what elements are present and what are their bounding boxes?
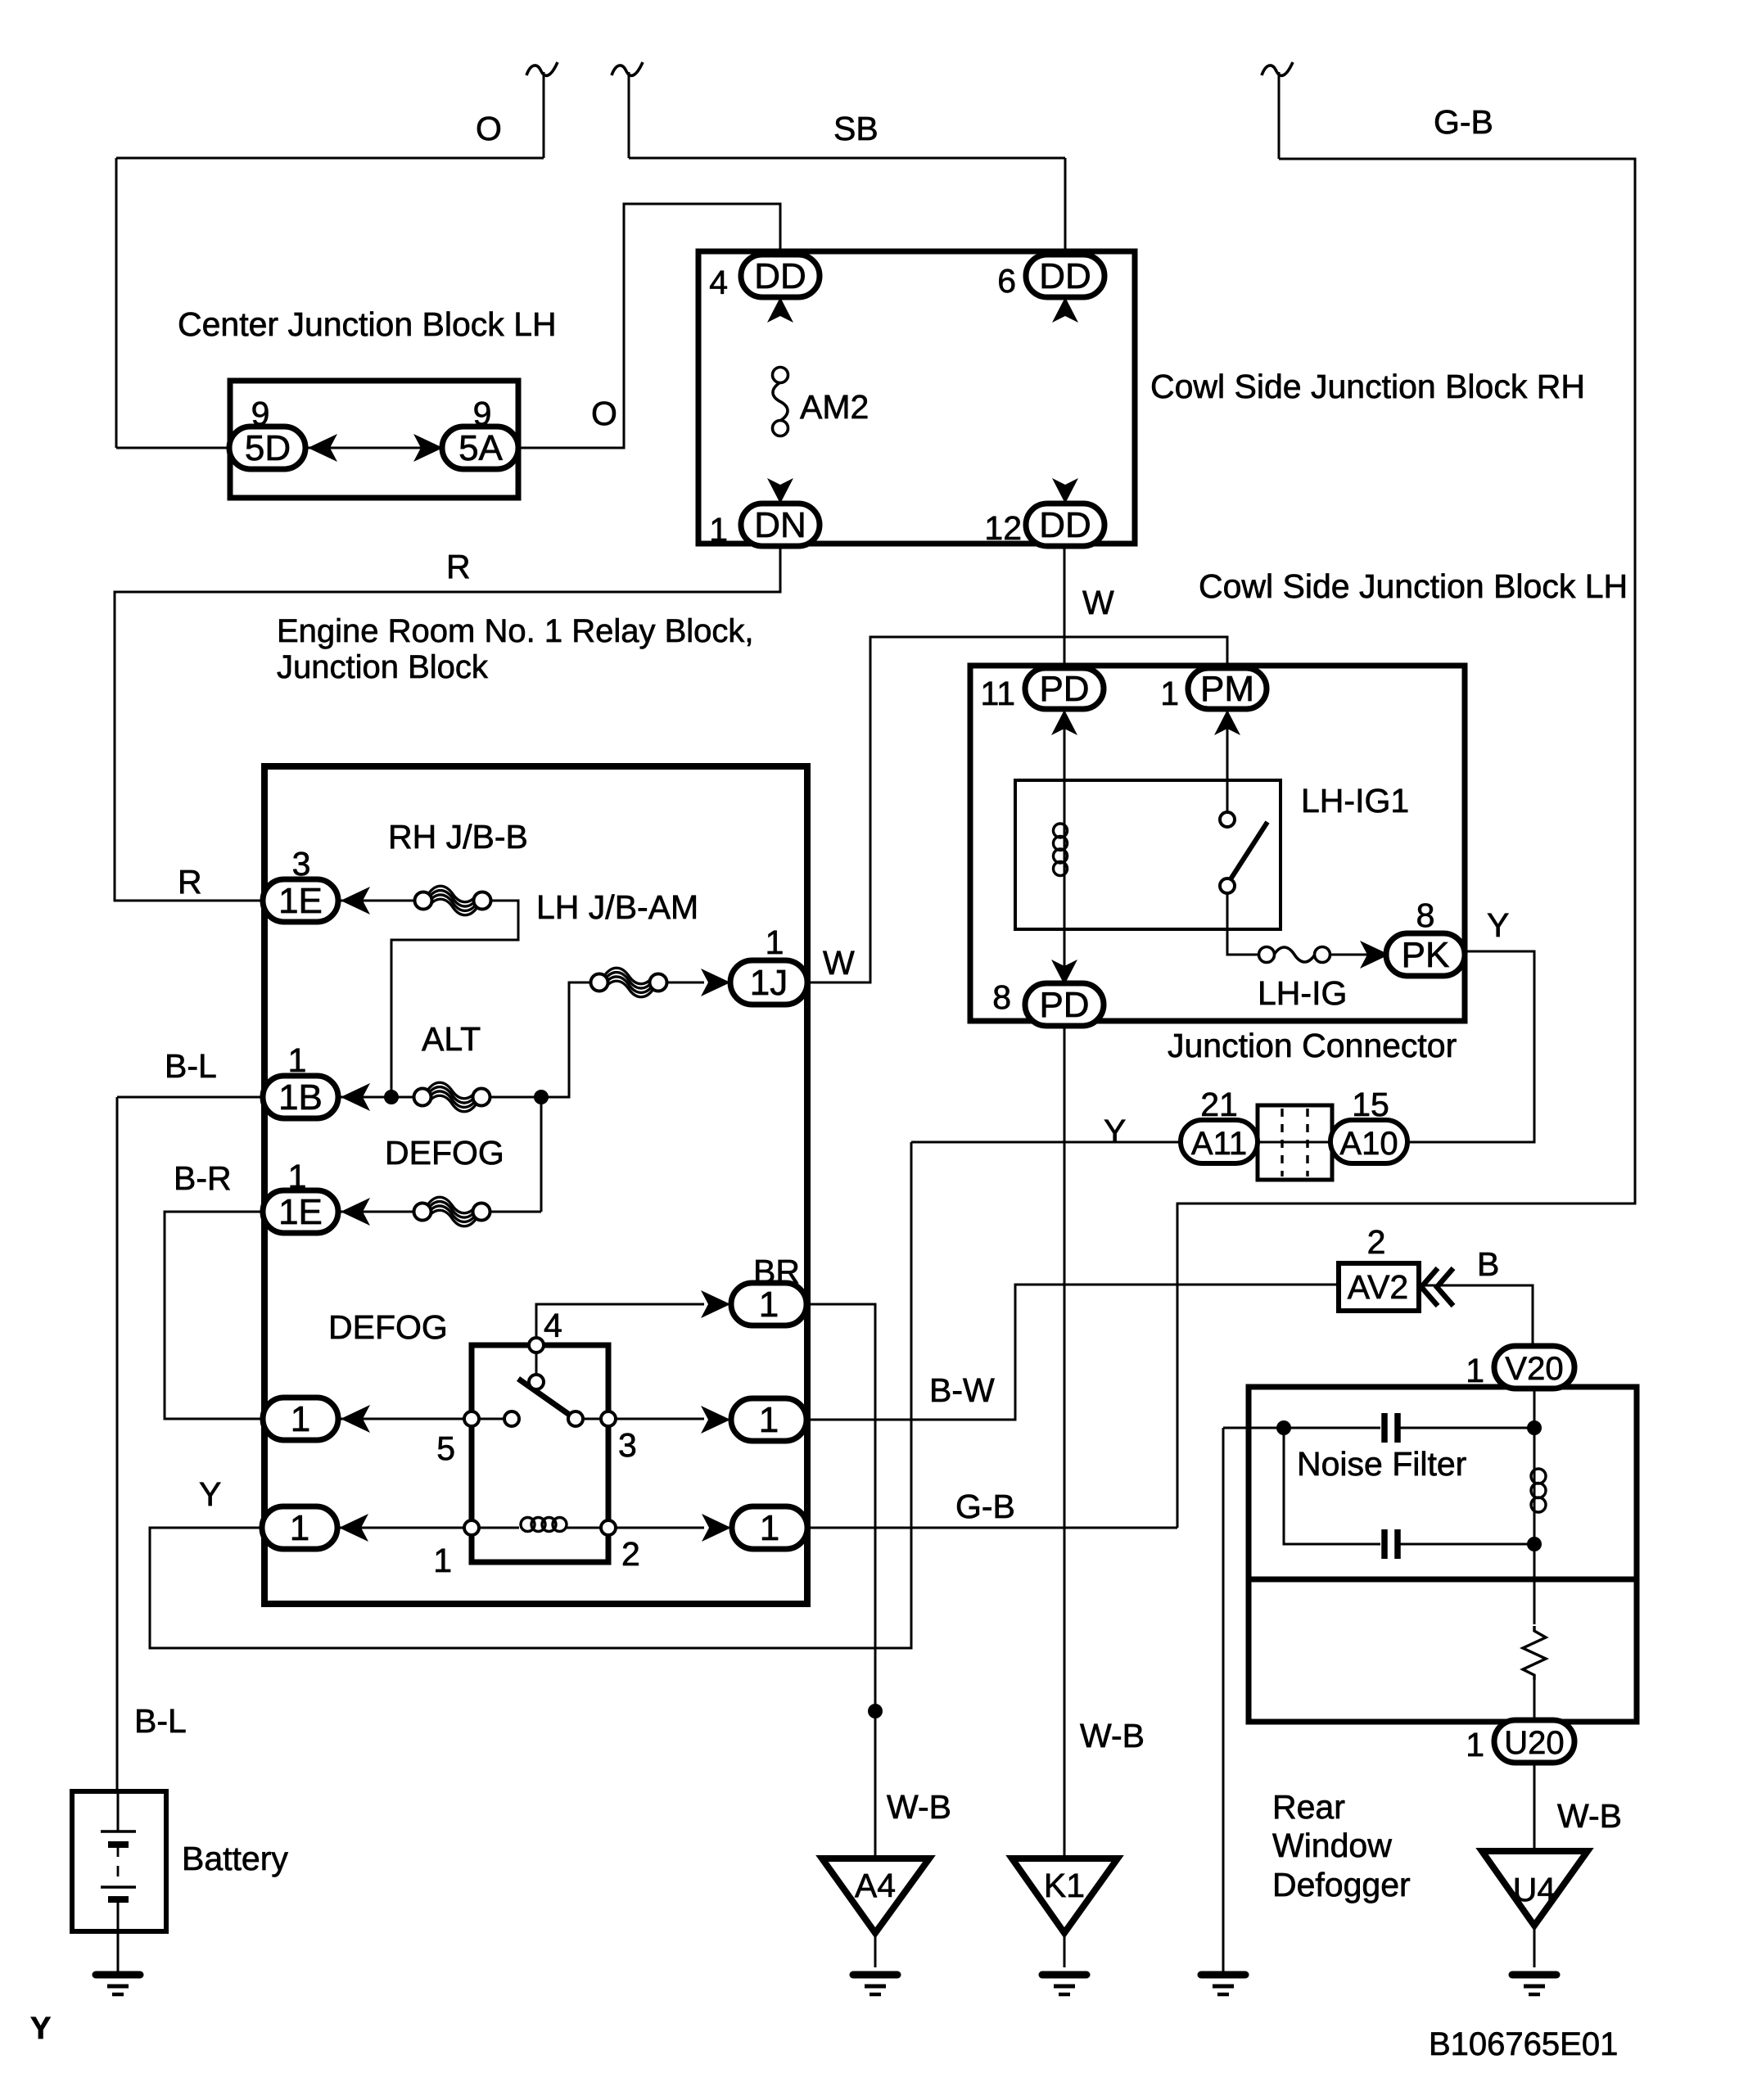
svg-text:1: 1 xyxy=(759,1285,779,1325)
svg-text:1: 1 xyxy=(766,924,784,961)
svg-text:1: 1 xyxy=(1466,1352,1484,1389)
svg-text:1: 1 xyxy=(1160,675,1179,712)
svg-text:W-B: W-B xyxy=(1557,1797,1622,1835)
svg-text:Cowl Side Junction Block RH: Cowl Side Junction Block RH xyxy=(1150,368,1585,405)
svg-text:LH-IG1: LH-IG1 xyxy=(1301,782,1409,820)
svg-text:DEFOG: DEFOG xyxy=(385,1134,504,1172)
svg-text:AV2: AV2 xyxy=(1348,1268,1408,1306)
svg-text:B106765E01: B106765E01 xyxy=(1429,2026,1618,2062)
svg-text:Junction Block: Junction Block xyxy=(277,649,489,685)
svg-text:Defogger: Defogger xyxy=(1272,1866,1411,1904)
svg-text:U20: U20 xyxy=(1504,1725,1564,1761)
svg-text:1E: 1E xyxy=(278,1192,323,1232)
svg-text:1: 1 xyxy=(759,1400,779,1440)
svg-text:Engine Room No. 1 Relay Block,: Engine Room No. 1 Relay Block, xyxy=(277,613,754,649)
svg-text:1E: 1E xyxy=(278,881,323,921)
svg-text:B-L: B-L xyxy=(134,1702,187,1740)
svg-text:Y: Y xyxy=(199,1475,221,1513)
svg-text:R: R xyxy=(178,863,202,901)
svg-text:12: 12 xyxy=(984,509,1022,547)
svg-text:DN: DN xyxy=(754,505,806,545)
svg-text:W-B: W-B xyxy=(1080,1717,1145,1755)
svg-text:Y: Y xyxy=(30,2012,51,2046)
svg-text:LH-IG: LH-IG xyxy=(1258,974,1347,1012)
svg-text:G-B: G-B xyxy=(955,1488,1015,1525)
svg-text:5D: 5D xyxy=(245,428,291,468)
svg-text:W: W xyxy=(823,944,855,982)
svg-text:11: 11 xyxy=(980,675,1015,712)
svg-text:DD: DD xyxy=(1039,256,1091,296)
svg-text:ALT: ALT xyxy=(422,1020,481,1058)
svg-text:PD: PD xyxy=(1039,669,1089,709)
svg-text:RH J/B-B: RH J/B-B xyxy=(388,818,528,856)
svg-text:1: 1 xyxy=(709,511,728,549)
svg-text:1: 1 xyxy=(1466,1726,1484,1764)
svg-text:W-B: W-B xyxy=(887,1788,951,1826)
svg-text:A11: A11 xyxy=(1191,1126,1247,1162)
svg-text:Battery: Battery xyxy=(182,1840,288,1877)
svg-text:O: O xyxy=(476,110,502,147)
svg-text:5: 5 xyxy=(436,1429,455,1467)
svg-text:DEFOG: DEFOG xyxy=(328,1308,448,1346)
svg-text:SB: SB xyxy=(833,110,879,147)
svg-text:B-L: B-L xyxy=(165,1047,217,1085)
svg-text:15: 15 xyxy=(1352,1086,1389,1123)
svg-text:1: 1 xyxy=(290,1508,309,1548)
svg-text:Y: Y xyxy=(1487,906,1509,944)
svg-text:1: 1 xyxy=(291,1399,310,1439)
svg-text:8: 8 xyxy=(1416,896,1435,934)
svg-text:1B: 1B xyxy=(278,1077,323,1118)
svg-text:Cowl Side Junction Block LH: Cowl Side Junction Block LH xyxy=(1199,567,1628,605)
svg-text:8: 8 xyxy=(992,978,1011,1016)
svg-text:W: W xyxy=(1082,584,1114,621)
svg-text:2: 2 xyxy=(621,1535,640,1573)
svg-text:1J: 1J xyxy=(750,963,788,1003)
svg-text:PD: PD xyxy=(1039,985,1089,1025)
svg-text:1: 1 xyxy=(433,1542,452,1579)
svg-text:3: 3 xyxy=(618,1426,637,1464)
svg-text:2: 2 xyxy=(1367,1223,1386,1261)
svg-text:BR: BR xyxy=(753,1253,800,1290)
svg-text:DD: DD xyxy=(1039,505,1091,545)
svg-text:LH J/B-AM: LH J/B-AM xyxy=(536,888,698,926)
svg-text:A10: A10 xyxy=(1339,1126,1398,1162)
svg-text:9: 9 xyxy=(473,395,492,432)
svg-text:R: R xyxy=(446,548,471,585)
svg-text:B-W: B-W xyxy=(929,1371,995,1409)
svg-text:Window: Window xyxy=(1272,1827,1392,1864)
svg-text:Center Junction Block LH: Center Junction Block LH xyxy=(178,305,557,343)
svg-text:6: 6 xyxy=(997,262,1016,300)
svg-text:G-B: G-B xyxy=(1434,103,1493,141)
svg-text:1: 1 xyxy=(288,1158,307,1195)
svg-text:Noise Filter: Noise Filter xyxy=(1297,1445,1466,1483)
svg-text:9: 9 xyxy=(251,395,270,432)
svg-text:Y: Y xyxy=(1104,1113,1126,1150)
svg-text:O: O xyxy=(591,395,617,432)
svg-text:B: B xyxy=(1477,1245,1499,1283)
svg-text:Junction Connector: Junction Connector xyxy=(1168,1027,1457,1064)
svg-text:Rear: Rear xyxy=(1272,1788,1345,1826)
svg-text:U4: U4 xyxy=(1513,1871,1556,1908)
svg-text:PM: PM xyxy=(1200,669,1254,709)
svg-text:3: 3 xyxy=(292,845,311,883)
svg-text:K1: K1 xyxy=(1044,1867,1085,1904)
svg-text:1: 1 xyxy=(288,1041,307,1079)
svg-text:AM2: AM2 xyxy=(800,388,869,426)
svg-text:B-R: B-R xyxy=(174,1159,232,1197)
svg-text:A4: A4 xyxy=(855,1867,896,1904)
svg-text:4: 4 xyxy=(709,264,728,301)
svg-text:V20: V20 xyxy=(1505,1351,1563,1387)
svg-text:DD: DD xyxy=(754,256,806,296)
svg-text:5A: 5A xyxy=(458,428,503,468)
svg-text:1: 1 xyxy=(760,1508,779,1548)
svg-text:4: 4 xyxy=(544,1307,562,1344)
svg-text:PK: PK xyxy=(1402,935,1450,975)
svg-text:21: 21 xyxy=(1200,1086,1238,1123)
